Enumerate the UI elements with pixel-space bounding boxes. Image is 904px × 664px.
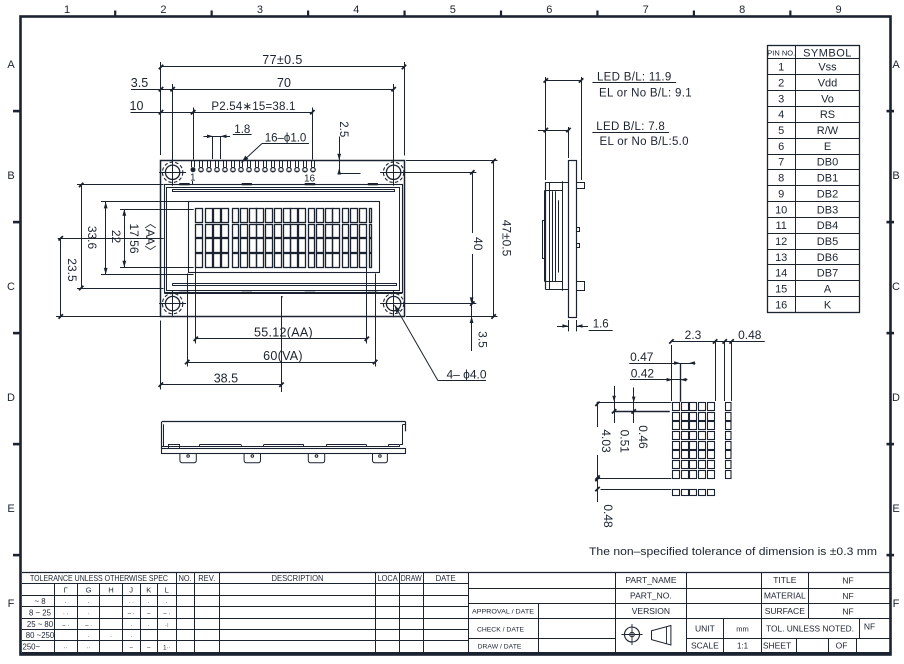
svg-text:OF: OF	[836, 640, 848, 650]
svg-text:EL or No B/L:5.0: EL or No B/L:5.0	[599, 136, 688, 148]
dimension 77 +/-0.5	[160, 62, 162, 155]
svg-text:8: 8	[739, 4, 745, 16]
side view glass protrusion	[543, 221, 546, 259]
svg-text:SURFACE: SURFACE	[765, 606, 805, 616]
dimension P2.54*15=38.1	[312, 108, 314, 160]
svg-text:5: 5	[778, 125, 784, 137]
svg-text:77±0.5: 77±0.5	[262, 53, 303, 67]
extension lines dot detail left	[597, 402, 672, 404]
svg-text:1··: 1··	[163, 645, 170, 651]
svg-text:11: 11	[775, 220, 786, 232]
svg-text:LED B/L: 7.8: LED B/L: 7.8	[596, 121, 665, 133]
svg-text:0.48: 0.48	[601, 504, 615, 528]
svg-text:55.12(AA): 55.12(AA)	[254, 325, 313, 339]
bezel flange line	[164, 293, 402, 295]
dimension LED B/L 11.9	[545, 77, 547, 180]
svg-text:mm: mm	[736, 625, 749, 634]
svg-text:– ·: – ·	[163, 612, 170, 618]
svg-text:DB4: DB4	[817, 220, 838, 232]
svg-text:– ·: – ·	[128, 612, 135, 618]
svg-text:–: –	[147, 645, 151, 651]
dimension 2.3	[671, 341, 764, 343]
svg-text:NF: NF	[842, 591, 853, 601]
svg-text:DB7: DB7	[817, 268, 838, 280]
svg-text:UNIT: UNIT	[695, 624, 715, 634]
dimension 17.56 (AA)	[120, 209, 194, 211]
svg-text:D: D	[7, 392, 15, 404]
svg-text:TITLE: TITLE	[773, 575, 796, 585]
bezel tabs top	[179, 183, 189, 185]
svg-text:B: B	[892, 170, 899, 182]
svg-text:2: 2	[160, 4, 166, 16]
svg-text:VERSION: VERSION	[632, 606, 670, 616]
svg-text:6: 6	[546, 4, 552, 16]
side view body outline	[545, 182, 547, 290]
svg-text:PART_NAME: PART_NAME	[625, 575, 677, 585]
svg-text:LED B/L: 11.9: LED B/L: 11.9	[597, 71, 672, 83]
svg-text:Vdd: Vdd	[818, 78, 838, 90]
svg-text:–: –	[130, 645, 134, 651]
svg-text:EL or No B/L: 9.1: EL or No B/L: 9.1	[599, 87, 692, 99]
svg-text:DRAW / DATE: DRAW / DATE	[478, 643, 522, 650]
svg-text:H: H	[108, 585, 113, 594]
title block middle section	[468, 572, 616, 652]
svg-text:–: –	[147, 612, 151, 618]
svg-text:5: 5	[450, 4, 456, 16]
svg-text:0.48: 0.48	[738, 328, 762, 342]
svg-text:4– ϕ4.0: 4– ϕ4.0	[446, 368, 486, 382]
dimension 38.5	[161, 384, 282, 386]
svg-text:NF: NF	[864, 622, 875, 632]
bottom view PCB bar	[162, 449, 406, 454]
dimension 0.48 top	[724, 341, 726, 401]
svg-text:2: 2	[778, 78, 784, 90]
svg-text:25 ~ 80: 25 ~ 80	[27, 620, 54, 629]
front view bezel inner	[167, 188, 400, 291]
svg-text:R/W: R/W	[817, 125, 839, 137]
right zone ticks	[887, 110, 895, 113]
row reference line	[614, 411, 670, 413]
svg-text:80 ~250: 80 ~250	[26, 631, 55, 640]
svg-text:DB5: DB5	[817, 236, 838, 248]
mounting holes	[162, 162, 182, 182]
side view PCB	[569, 161, 577, 318]
side view bottom tab	[577, 282, 585, 291]
svg-text:– ·: – ·	[85, 623, 92, 629]
svg-text:250~: 250~	[23, 642, 41, 651]
svg-text:RS: RS	[820, 109, 835, 121]
svg-text:NF: NF	[842, 606, 853, 616]
svg-text:2.3: 2.3	[685, 328, 702, 342]
title block	[22, 572, 890, 652]
svg-text:·: ·	[148, 623, 150, 629]
svg-text:The non–specified tolerance of: The non–specified tolerance of dimension…	[589, 546, 877, 558]
svg-text:15: 15	[775, 283, 787, 295]
side view backlight pins	[577, 228, 580, 232]
svg-text:12: 12	[775, 236, 787, 248]
svg-text:3.5: 3.5	[476, 331, 490, 348]
svg-text:DB2: DB2	[817, 188, 838, 200]
svg-text:22: 22	[109, 230, 123, 244]
svg-text:·: ·	[110, 634, 112, 640]
svg-text:– ·: – ·	[62, 623, 69, 629]
svg-text:LOCA: LOCA	[378, 574, 398, 583]
svg-text:4.03: 4.03	[599, 429, 613, 453]
svg-text:16–ϕ1.0: 16–ϕ1.0	[265, 133, 307, 145]
svg-text:DB0: DB0	[817, 157, 838, 169]
svg-text:A: A	[824, 283, 832, 295]
svg-text:C: C	[7, 281, 15, 293]
svg-text:F: F	[893, 598, 900, 610]
dimension 55.12(AA)	[196, 338, 367, 340]
pin header 16 pins	[191, 160, 316, 172]
svg-text:·: ·	[130, 623, 132, 629]
svg-text:NF: NF	[842, 576, 853, 586]
svg-text:K: K	[146, 585, 151, 594]
dimension 60(VA)	[187, 362, 375, 364]
dimension 10	[193, 108, 195, 160]
svg-text:··: ··	[64, 645, 68, 651]
svg-text:47±0.5: 47±0.5	[500, 220, 514, 257]
svg-text:7: 7	[643, 4, 649, 16]
svg-text:10: 10	[130, 99, 144, 113]
bezel top bar	[172, 189, 395, 191]
svg-text:REV.: REV.	[198, 574, 215, 583]
front view module outline	[161, 161, 405, 317]
bezel bottom bar	[173, 283, 397, 285]
character grid	[196, 209, 372, 268]
svg-text:DRAW: DRAW	[401, 574, 422, 583]
svg-text:NO.: NO.	[179, 574, 192, 583]
svg-text:DESCRIPTION: DESCRIPTION	[272, 574, 324, 583]
svg-text:23.5: 23.5	[65, 258, 79, 282]
svg-text:8: 8	[778, 173, 784, 185]
svg-text:DB1: DB1	[817, 173, 838, 185]
svg-text:10: 10	[775, 204, 787, 216]
svg-text:CHECK / DATE: CHECK / DATE	[477, 627, 525, 634]
svg-text:1.8: 1.8	[234, 124, 250, 136]
pin assignment table	[767, 46, 860, 313]
svg-text:1: 1	[64, 4, 70, 16]
svg-text:13: 13	[775, 252, 787, 264]
svg-text:SCALE: SCALE	[691, 640, 719, 650]
svg-text:3.5: 3.5	[131, 76, 148, 90]
svg-text:14: 14	[775, 268, 787, 280]
dimension 22	[101, 201, 194, 203]
dimension 0.42	[630, 379, 688, 381]
svg-text:·: ·	[65, 600, 67, 606]
svg-text:DB3: DB3	[817, 204, 838, 216]
svg-text:SHEET: SHEET	[763, 640, 791, 650]
dimension 0.48 bottom text	[593, 502, 603, 530]
bottom view pin feet	[180, 453, 196, 462]
bottom border emphasis	[22, 652, 890, 655]
svg-text:K: K	[824, 299, 832, 311]
svg-text:·: ·	[88, 600, 90, 606]
svg-text:B: B	[7, 170, 14, 182]
dot detail bottom ext lines	[597, 478, 672, 480]
svg-text:16: 16	[775, 299, 787, 311]
dot matrix detail 5x8	[673, 403, 715, 479]
svg-text:1: 1	[778, 62, 784, 74]
svg-text:PIN NO.: PIN NO.	[767, 49, 795, 58]
bottom view left edge	[161, 422, 163, 449]
svg-text:6: 6	[778, 141, 784, 153]
svg-text:0.46: 0.46	[636, 425, 650, 449]
svg-text:60(VA): 60(VA)	[263, 349, 303, 363]
left zone ticks	[13, 110, 21, 113]
svg-text:PART_NO.: PART_NO.	[630, 591, 672, 601]
dimension 2.5 vertical	[339, 137, 341, 174]
bottom view left step	[169, 445, 180, 449]
svg-text:0.51: 0.51	[618, 430, 632, 454]
svg-text:0.42: 0.42	[631, 367, 655, 381]
svg-text:40: 40	[471, 237, 485, 251]
svg-text:E: E	[892, 503, 899, 515]
side view top tab	[577, 183, 585, 189]
svg-text:· ·: · ·	[128, 600, 134, 606]
svg-text:SYMBOL: SYMBOL	[803, 47, 852, 59]
svg-text:·: ·	[88, 612, 90, 618]
svg-text:1: 1	[190, 172, 196, 183]
svg-text:4: 4	[778, 109, 784, 121]
svg-text:C: C	[892, 281, 900, 293]
svg-text:8 ~ 25: 8 ~ 25	[29, 609, 52, 618]
dimension 1.8	[212, 137, 214, 159]
svg-text:Vss: Vss	[818, 62, 837, 74]
svg-text:MATERIAL: MATERIAL	[764, 591, 806, 601]
front view bezel outer	[165, 185, 403, 293]
right extension lines	[406, 160, 498, 162]
dimension 4.03 text	[595, 402, 599, 406]
projection logo	[622, 624, 671, 645]
tolerance table tiny values	[62, 600, 170, 651]
svg-text:APPROVAL / DATE: APPROVAL / DATE	[472, 609, 534, 616]
svg-text:D: D	[892, 392, 900, 404]
bezel tabs bottom	[179, 292, 189, 294]
view centerline below	[281, 297, 283, 392]
svg-text:DB6: DB6	[817, 252, 838, 264]
dimension 0.47	[629, 363, 695, 365]
display window	[189, 202, 380, 273]
title block right section	[616, 572, 890, 652]
top ruler ticks	[114, 11, 116, 17]
svg-text:3: 3	[778, 93, 784, 105]
svg-text:〈AA〉: 〈AA〉	[143, 217, 157, 257]
bottom view bezel bottom edge	[162, 446, 400, 448]
svg-text:16: 16	[304, 174, 316, 185]
dimension 1.6 PCB thickness	[568, 320, 570, 331]
svg-text:TOLERANCE UNLESS OTHERWISE SPE: TOLERANCE UNLESS OTHERWISE SPEC	[30, 574, 168, 583]
leader 16-dia1.0	[262, 143, 309, 145]
svg-text:DATE: DATE	[436, 574, 457, 583]
svg-text:E: E	[7, 503, 14, 515]
svg-text:A: A	[892, 59, 900, 71]
dimension 47 +/-0.5	[493, 161, 495, 317]
svg-text:~ 8: ~ 8	[34, 597, 45, 606]
bottom view right edge	[405, 422, 407, 432]
dimension LED B/L 7.8	[568, 127, 570, 158]
column reference line	[680, 363, 682, 402]
svg-text:2.5: 2.5	[337, 121, 349, 137]
leader 4-dia4.0	[395, 305, 439, 381]
dimension 3.5 right	[471, 304, 473, 351]
svg-text:9: 9	[836, 4, 842, 16]
svg-text:F: F	[8, 598, 15, 610]
svg-text:· ·: · ·	[63, 612, 69, 618]
svg-text:··: ··	[87, 645, 91, 651]
dimension 70	[172, 84, 174, 160]
svg-text:G: G	[86, 585, 92, 594]
dimension 40	[472, 172, 474, 303]
svg-text:3: 3	[257, 4, 263, 16]
svg-text:·: ·	[130, 634, 132, 640]
svg-text:·∶: ·∶	[165, 623, 169, 629]
svg-text:4: 4	[353, 4, 359, 16]
svg-text:33.6: 33.6	[85, 226, 99, 250]
bottom view top edge	[162, 421, 406, 423]
svg-text:J: J	[129, 585, 133, 594]
svg-text:7: 7	[778, 157, 784, 169]
svg-text:·: ·	[148, 600, 150, 606]
svg-text:70: 70	[277, 76, 291, 90]
svg-text:9: 9	[778, 188, 784, 200]
dot matrix right column	[726, 403, 732, 479]
bottom view bezel bumps	[199, 444, 241, 446]
svg-text:E: E	[824, 141, 831, 153]
svg-text:L: L	[165, 585, 169, 594]
svg-text:1:1: 1:1	[737, 641, 749, 650]
dimension 4.03 and 0.48 bottom line	[597, 402, 599, 528]
dimension 33.6	[77, 184, 164, 186]
svg-text:38.5: 38.5	[214, 371, 238, 385]
display centerline	[58, 238, 164, 240]
svg-text:Vo: Vo	[821, 93, 834, 105]
svg-text:P2.54∗15=38.1: P2.54∗15=38.1	[211, 101, 295, 113]
svg-text:·: ·	[166, 600, 168, 606]
svg-text:1.6: 1.6	[593, 318, 609, 330]
dot matrix bottom row	[673, 490, 715, 496]
lower extension lines	[195, 268, 197, 344]
dimension 23.5	[60, 238, 62, 317]
svg-text:0.47: 0.47	[630, 350, 654, 364]
svg-text:Γ: Γ	[64, 585, 68, 594]
svg-text:A: A	[7, 59, 15, 71]
svg-text:·: ·	[88, 634, 90, 640]
svg-text:TOL. UNLESS NOTED.: TOL. UNLESS NOTED.	[766, 625, 854, 634]
dimension 3.5	[159, 87, 163, 91]
